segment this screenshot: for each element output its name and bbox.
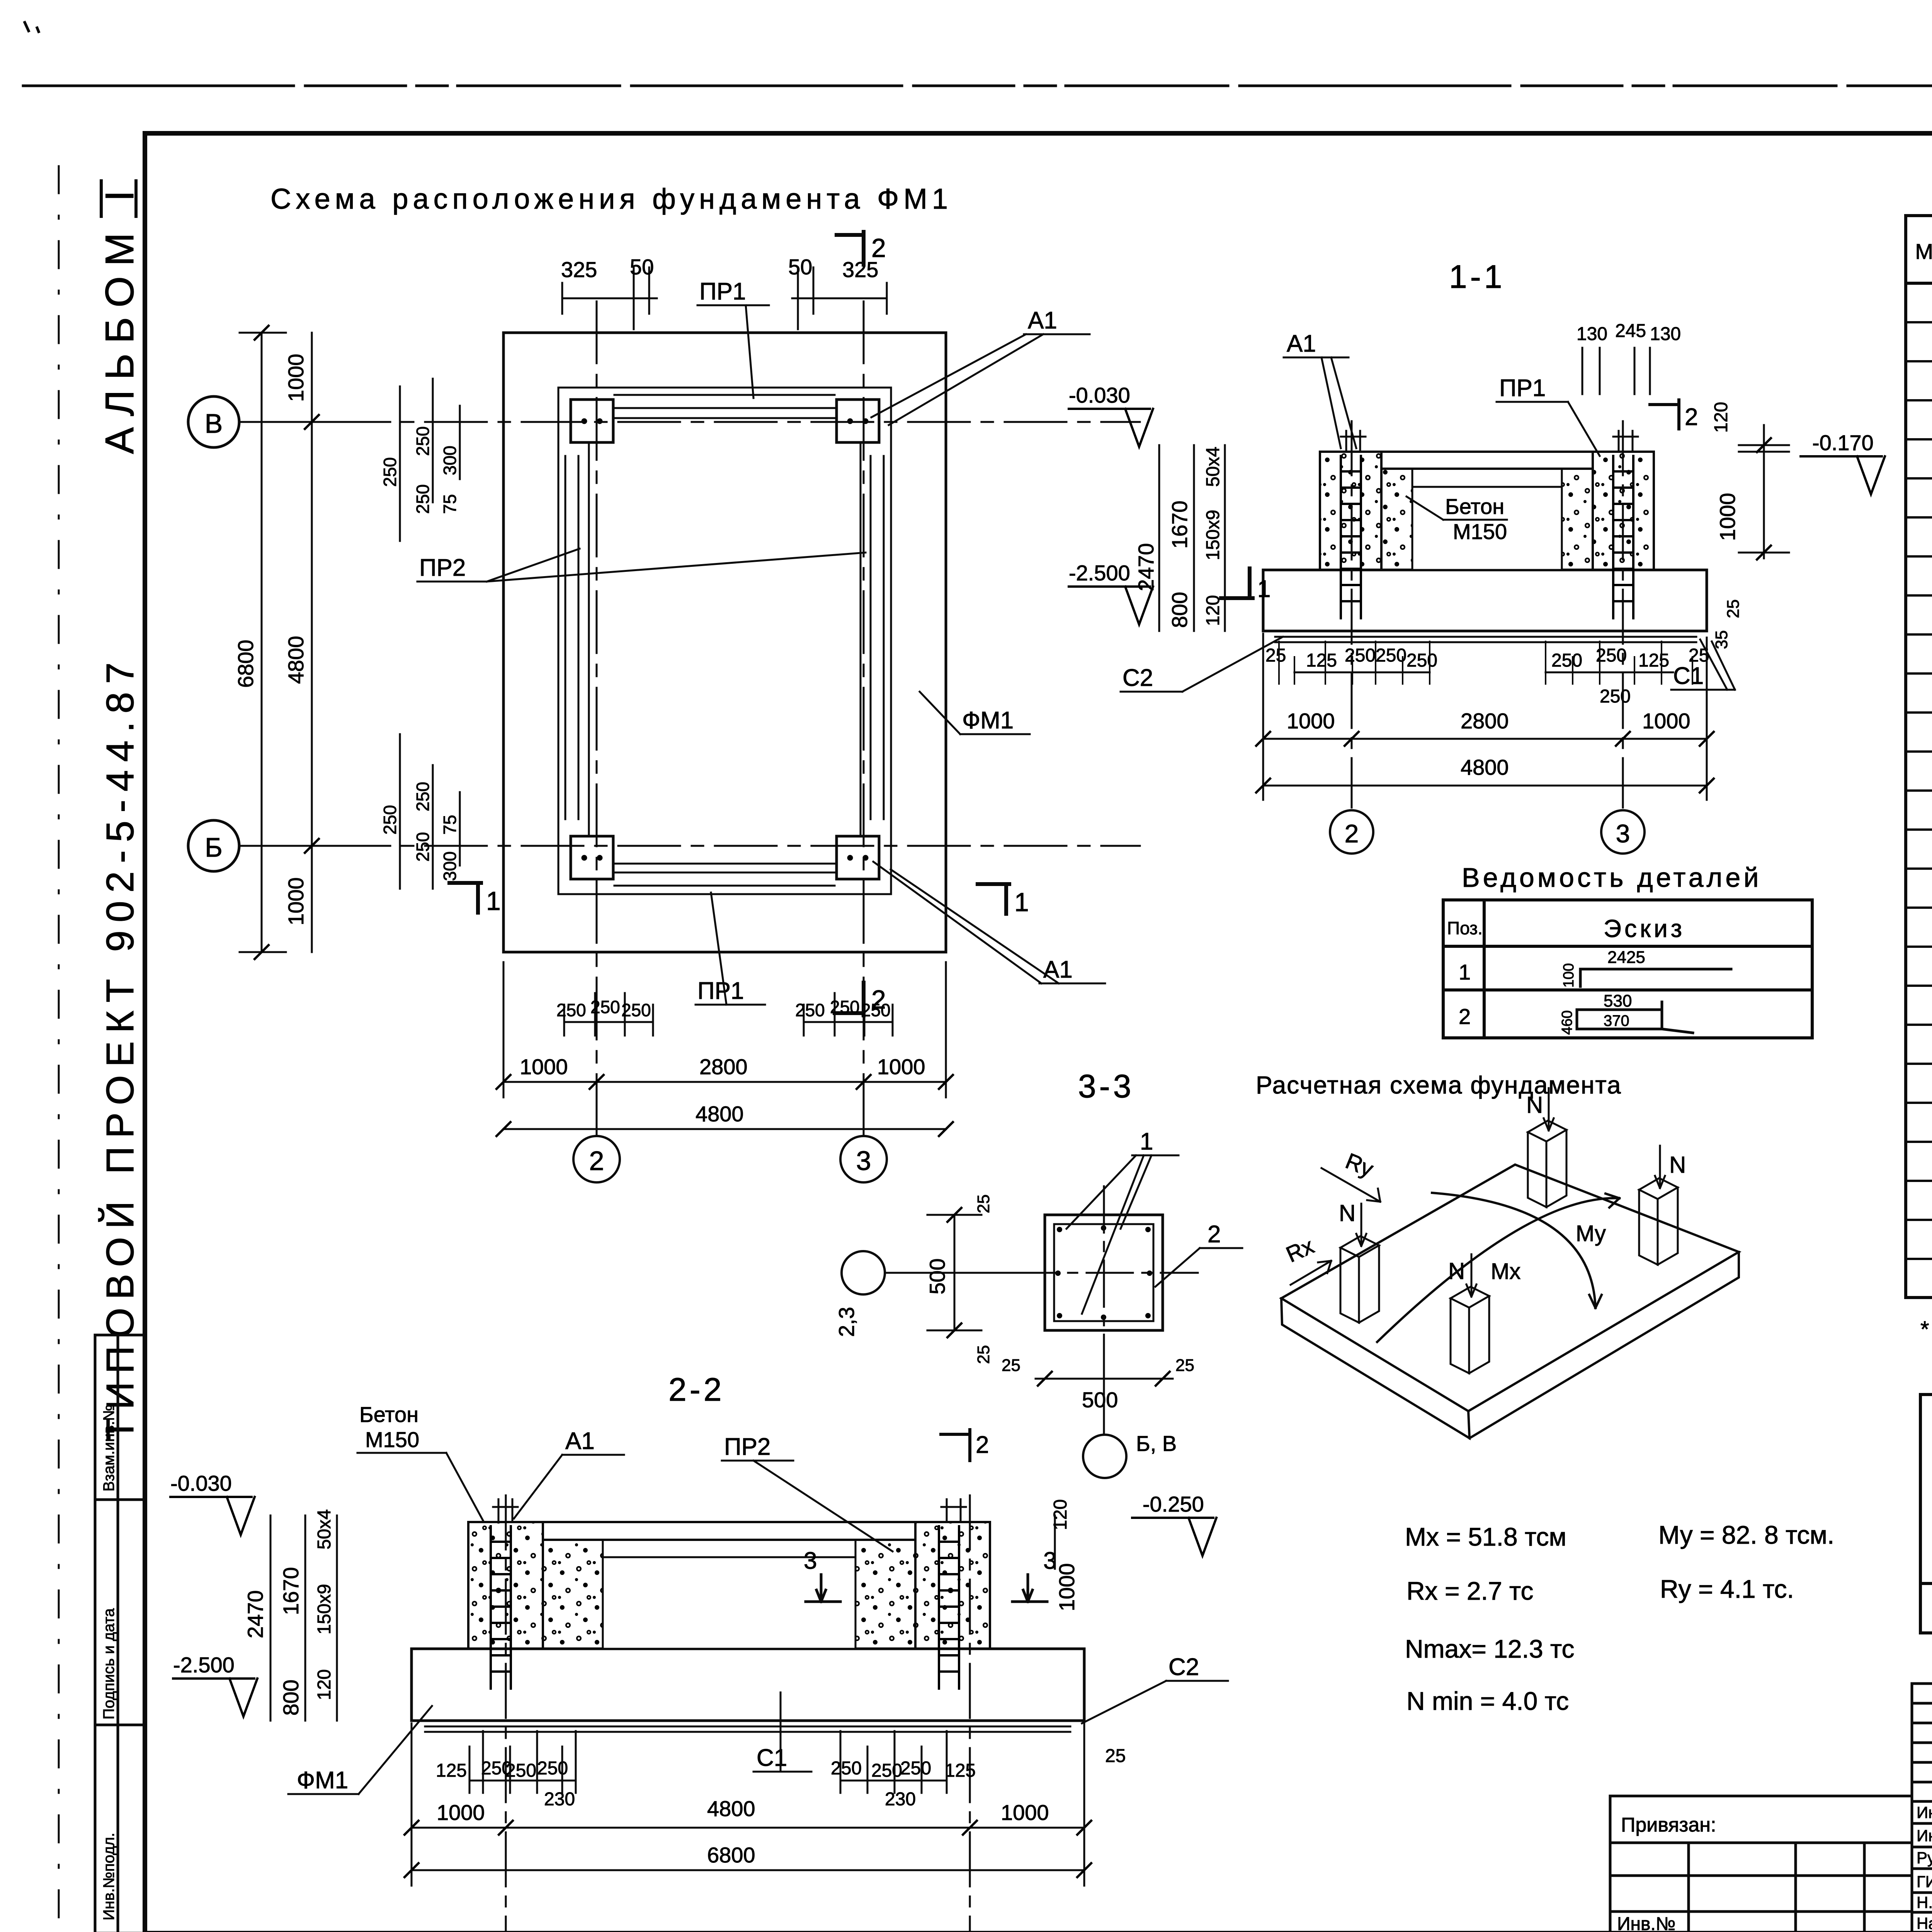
svg-text:Rу = 4.1 тс.: Rу = 4.1 тс. [1660, 1575, 1794, 1603]
svg-text:1000: 1000 [520, 1054, 568, 1079]
sec2 left column [468, 1522, 543, 1649]
svg-text:300: 300 [440, 851, 460, 881]
plan axis circle В [188, 396, 239, 447]
svg-text:3: 3 [856, 1146, 871, 1176]
svg-text:50: 50 [788, 255, 812, 279]
svg-text:Подпись и дата: Подпись и дата [100, 1608, 117, 1719]
svg-text:N: N [1339, 1200, 1355, 1226]
3d column D [1639, 1178, 1678, 1265]
svg-text:250: 250 [1596, 645, 1627, 666]
svg-text:75: 75 [440, 815, 460, 835]
sec3 axis circle Б,В [1083, 1435, 1126, 1478]
svg-text:2,3: 2,3 [834, 1307, 859, 1337]
svg-text:250: 250 [861, 1000, 891, 1020]
svg-text:800: 800 [279, 1680, 303, 1716]
svg-text:2: 2 [1207, 1221, 1221, 1248]
svg-text:Му = 82. 8 тсм.: Му = 82. 8 тсм. [1658, 1520, 1834, 1549]
sec1 marker 2 top [1650, 400, 1679, 429]
svg-text:4800: 4800 [696, 1102, 744, 1126]
svg-text:Му: Му [1576, 1221, 1606, 1246]
3d N arrows [1356, 1088, 1665, 1297]
svg-text:125: 125 [945, 1760, 976, 1781]
svg-text:500: 500 [925, 1259, 949, 1294]
svg-text:Инв.№подл.: Инв.№подл. [100, 1833, 117, 1920]
plan ring outer [558, 388, 891, 894]
svg-text:Ведомость деталей: Ведомость деталей [1462, 862, 1762, 893]
sec2 ladder right [939, 1526, 959, 1689]
sec2 mesh lines [425, 1726, 1070, 1732]
spec table grid [1906, 216, 1932, 1298]
sec2 right dims 120 1000 [1054, 1515, 1056, 1569]
svg-text:2800: 2800 [699, 1054, 748, 1079]
svg-text:250: 250 [621, 1000, 651, 1020]
plan corner column BR [837, 836, 879, 879]
svg-text:530: 530 [1604, 992, 1632, 1010]
svg-text:2470: 2470 [243, 1590, 267, 1638]
svg-text:2: 2 [1459, 1004, 1471, 1029]
svg-text:25: 25 [1105, 1746, 1126, 1766]
привязан block [1610, 1796, 1912, 1932]
svg-text:С2: С2 [1122, 665, 1153, 691]
svg-text:150х9: 150х9 [314, 1584, 335, 1634]
plan corner column TR [837, 400, 879, 442]
svg-text:1: 1 [1140, 1128, 1153, 1155]
svg-text:250: 250 [1551, 650, 1582, 671]
svg-text:ПР2: ПР2 [419, 554, 466, 581]
sec1 left dims [1159, 445, 1225, 631]
svg-text:245: 245 [1615, 321, 1646, 341]
svg-text:ПР1: ПР1 [1499, 375, 1546, 401]
svg-text:2470: 2470 [1134, 543, 1158, 591]
svg-text:-2.500: -2.500 [1069, 561, 1130, 585]
svg-text:3: 3 [1616, 819, 1630, 848]
svg-text:250: 250 [413, 484, 433, 514]
plan left dim 6800 [240, 333, 286, 952]
svg-text:120: 120 [1050, 1499, 1071, 1530]
svg-text:2425: 2425 [1607, 948, 1645, 967]
svg-text:Б: Б [205, 832, 223, 862]
svg-text:2: 2 [871, 233, 886, 263]
plan top dim 50 325 right [792, 267, 887, 329]
svg-text:Схема расположения фундамента: Схема расположения фундамента ФМ1 [270, 183, 952, 215]
plan axis vertical line 3 [863, 301, 865, 1136]
svg-text:4800: 4800 [284, 636, 308, 684]
svg-text:1000: 1000 [284, 354, 308, 402]
plan corner column TL [571, 400, 613, 442]
svg-text:250: 250 [380, 805, 400, 835]
svg-text:3-3: 3-3 [1078, 1068, 1134, 1104]
3d plate [1281, 1165, 1739, 1411]
svg-text:460: 460 [1559, 1010, 1575, 1035]
vedomost sketch row1 [1580, 969, 1731, 986]
sec2 dim 1000 4800 1000 [412, 1827, 1084, 1829]
svg-text:ТИПОВОЙ ПРОЕКТ 902-5-44.87: ТИПОВОЙ ПРОЕКТ 902-5-44.87 [98, 654, 142, 1441]
svg-text:Эскиз: Эскиз [1604, 915, 1685, 942]
svg-text:Бетон: Бетон [359, 1402, 418, 1427]
plan axis circle 3 [840, 1136, 887, 1182]
3d moment arc B [1432, 1193, 1602, 1308]
svg-text:ГИПконс: ГИПконс [1917, 1872, 1932, 1891]
svg-text:Привязан:: Привязан: [1621, 1814, 1716, 1836]
sec2 top beam [468, 1522, 990, 1540]
svg-text:Инв.№: Инв.№ [1617, 1914, 1675, 1932]
sec2 ladder left [491, 1526, 511, 1689]
plan slab ФМ1 outline [503, 333, 946, 952]
sec1 dim 4800 [1263, 634, 1707, 800]
sec1 dim 1000 2800 1000 [1263, 738, 1707, 740]
svg-text:230: 230 [544, 1789, 575, 1810]
svg-text:300: 300 [440, 446, 460, 475]
sec1 axis line 2 [1351, 421, 1353, 808]
svg-text:500: 500 [1082, 1388, 1118, 1412]
3d Rx arrow [1291, 1261, 1331, 1285]
plan bottom small dims right [804, 993, 893, 1036]
sec2 markers 3 [806, 1575, 840, 1602]
svg-text:250: 250 [1600, 686, 1631, 707]
svg-text:325: 325 [561, 257, 597, 282]
svg-text:ПР1: ПР1 [697, 978, 744, 1004]
sec1 axis line 3 [1622, 421, 1624, 808]
sec1 ladder left [1341, 456, 1361, 618]
sec1 cavity [1381, 469, 1412, 570]
svg-text:2-2: 2-2 [668, 1371, 724, 1408]
sec3 axis circle 2,3 [842, 1251, 885, 1294]
left margin small boxes [95, 1335, 145, 1932]
svg-text:Nmax= 12.3 тс: Nmax= 12.3 тс [1405, 1634, 1575, 1663]
sec1 marker 1 bottom-left [1221, 568, 1253, 598]
svg-text:Инжен.: Инжен. [1917, 1827, 1932, 1845]
svg-text:Расчетная схема фундамента: Расчетная схема фундамента [1256, 1071, 1622, 1099]
plan axis vertical line 2 [596, 301, 598, 1136]
signatures table [1912, 1684, 1932, 1932]
plan section marker 1 right [978, 884, 1009, 914]
left trim dash-dot line [58, 166, 60, 1932]
svg-text:6800: 6800 [233, 639, 258, 688]
svg-text:ПР1: ПР1 [699, 278, 746, 305]
spec rows [1931, 291, 1932, 1235]
svg-text:150х9: 150х9 [1203, 510, 1223, 560]
sec1 mesh C2 lines [1275, 637, 1696, 642]
svg-text:С1: С1 [1673, 663, 1704, 689]
svg-text:1: 1 [1459, 960, 1471, 984]
sec1 right column [1593, 452, 1654, 570]
sec2 axis lines [506, 1495, 970, 1932]
svg-text:230: 230 [885, 1789, 916, 1810]
svg-text:Б, В: Б, В [1136, 1431, 1177, 1456]
plan section marker 1 left [449, 883, 481, 913]
svg-text:МАРКА: МАРКА [1915, 239, 1932, 264]
svg-text:Rх = 2.7 тс: Rх = 2.7 тс [1406, 1577, 1533, 1605]
svg-text:М150: М150 [1453, 519, 1507, 544]
svg-text:125: 125 [1638, 650, 1669, 671]
album I serifs [101, 181, 136, 216]
svg-text:2: 2 [589, 1146, 604, 1176]
plan top dim 325 50 left [562, 267, 657, 329]
svg-text:N: N [1526, 1092, 1543, 1118]
3d moment arc A [1377, 1194, 1619, 1342]
svg-text:1000: 1000 [1642, 709, 1690, 733]
svg-text:Мх: Мх [1491, 1259, 1520, 1284]
sec2 left dims [270, 1515, 337, 1721]
svg-text:25: 25 [1724, 599, 1743, 618]
svg-text:А1: А1 [1287, 330, 1316, 357]
plan dim 1000 2800 1000 [503, 962, 946, 1097]
sec3 rebar dots [1055, 1225, 1152, 1320]
svg-text:N min = 4.0 тс: N min = 4.0 тс [1406, 1687, 1569, 1715]
svg-text:1670: 1670 [1167, 500, 1192, 549]
svg-text:1: 1 [1014, 888, 1029, 917]
sec2 right column [915, 1522, 990, 1649]
svg-text:250: 250 [900, 1758, 931, 1779]
svg-text:125: 125 [436, 1760, 467, 1781]
plan corner column BL [571, 836, 613, 879]
sec1 right dims 120 1000 [1739, 425, 1789, 558]
svg-text:250: 250 [556, 1000, 586, 1020]
svg-text:250: 250 [413, 426, 433, 456]
svg-text:АЛЬБОМ I: АЛЬБОМ I [97, 180, 142, 454]
svg-text:250: 250 [590, 997, 620, 1017]
sec2 dim 6800 [412, 1723, 1084, 1886]
svg-text:1000: 1000 [284, 877, 308, 925]
svg-text:250: 250 [380, 457, 400, 487]
3d column B [1528, 1121, 1566, 1207]
vedomost sketch row2 [1577, 1002, 1693, 1033]
svg-text:Поз.: Поз. [1447, 918, 1483, 938]
svg-text:3: 3 [804, 1548, 817, 1574]
svg-text:250: 250 [871, 1760, 902, 1781]
svg-text:ФМ1: ФМ1 [297, 1767, 348, 1794]
plan left dim 4800/1000 [294, 333, 332, 952]
svg-text:4800: 4800 [707, 1796, 755, 1821]
svg-text:6800: 6800 [707, 1843, 755, 1867]
svg-text:2: 2 [1685, 404, 1698, 430]
svg-text:Взам.инв.№: Взам.инв.№ [100, 1404, 117, 1492]
plan bottom small dims left [564, 993, 653, 1036]
svg-text:1: 1 [1257, 576, 1270, 602]
sec1 left column [1320, 452, 1381, 570]
svg-text:1000: 1000 [1715, 493, 1740, 541]
sec1 axis circle 3 [1601, 810, 1645, 854]
svg-text:25: 25 [974, 1345, 993, 1364]
svg-text:800: 800 [1167, 592, 1192, 628]
sec1 bolt tops [1341, 431, 1638, 452]
svg-text:1670: 1670 [279, 1567, 303, 1615]
plan section marker 2 bottom [835, 983, 864, 1015]
svg-text:1000: 1000 [1054, 1563, 1079, 1611]
svg-text:А1: А1 [1043, 956, 1073, 983]
sec2 cavity [543, 1540, 603, 1649]
svg-text:50х4: 50х4 [314, 1509, 335, 1549]
sec3 centerlines [1012, 1186, 1198, 1360]
plan axis horizontal line В [232, 421, 1140, 423]
svg-text:Инжен.: Инжен. [1917, 1803, 1932, 1821]
svg-text:130: 130 [1577, 324, 1607, 344]
svg-text:Бетон: Бетон [1445, 494, 1504, 519]
svg-text:2: 2 [1345, 819, 1359, 848]
svg-text:250: 250 [831, 1758, 862, 1779]
svg-text:25: 25 [1002, 1356, 1020, 1375]
sec2 bolt tops [493, 1499, 966, 1522]
svg-text:Нач.отд: Нач.отд [1917, 1914, 1932, 1932]
svg-text:25: 25 [1175, 1356, 1194, 1375]
svg-text:1: 1 [486, 886, 501, 916]
svg-text:В: В [205, 408, 223, 439]
plan left beam ПР2 double lines [565, 456, 578, 819]
plan ring inner [589, 418, 861, 864]
3d N labels [1339, 1092, 1686, 1284]
svg-text:35: 35 [1712, 630, 1731, 649]
plan dim 4800 [503, 1128, 946, 1130]
svg-text:-2.500: -2.500 [173, 1653, 235, 1677]
sec2 marker 2 top [941, 1430, 970, 1461]
svg-text:250: 250 [413, 782, 433, 811]
scan speck top-left [25, 22, 39, 32]
svg-text:130: 130 [1650, 324, 1681, 344]
plan axis circle Б [188, 820, 239, 871]
svg-text:ПР2: ПР2 [724, 1434, 770, 1460]
svg-text:Н.контр: Н.контр [1917, 1893, 1932, 1912]
svg-text:100: 100 [1561, 963, 1577, 988]
svg-text:А1: А1 [1028, 307, 1057, 334]
svg-text:ФМ1: ФМ1 [962, 707, 1014, 734]
plan small dims top-left cluster [400, 379, 460, 541]
svg-text:2: 2 [976, 1432, 989, 1458]
top trim dashed line [23, 85, 1932, 87]
svg-text:1000: 1000 [437, 1800, 485, 1825]
svg-text:125: 125 [1306, 650, 1337, 671]
svg-text:1000: 1000 [1001, 1800, 1049, 1825]
svg-text:-0.030: -0.030 [1069, 383, 1130, 407]
sec3 inner square [1054, 1224, 1153, 1321]
sec1 plate [1263, 570, 1707, 631]
sec3 outer square [1045, 1215, 1163, 1330]
svg-text:-0.170: -0.170 [1812, 430, 1874, 455]
svg-text:250: 250 [537, 1758, 568, 1779]
svg-text:2800: 2800 [1461, 709, 1509, 733]
plan right beam ПР2 double lines [871, 456, 884, 819]
sec1 ladder right [1613, 456, 1633, 618]
svg-text:120: 120 [1711, 402, 1731, 433]
svg-text:* Позиции 1,2 смотри ведомо: * Позиции 1,2 смотри ведомость деталей [1920, 1317, 1932, 1342]
svg-text:75: 75 [440, 494, 460, 514]
svg-text:250: 250 [795, 1000, 825, 1020]
svg-text:250: 250 [830, 997, 860, 1017]
svg-text:1-1: 1-1 [1449, 259, 1505, 295]
plan axis circle 2 [573, 1136, 620, 1182]
svg-text:50: 50 [630, 255, 654, 279]
svg-text:25: 25 [974, 1194, 993, 1213]
svg-text:С2: С2 [1168, 1654, 1199, 1680]
plan small dims bottom-left cluster [400, 734, 460, 889]
sec1 axis circle 2 [1330, 810, 1373, 854]
sec1 top beam [1320, 452, 1654, 469]
svg-text:250: 250 [1406, 650, 1437, 671]
3d column C [1451, 1287, 1489, 1373]
svg-text:120: 120 [314, 1669, 335, 1700]
svg-text:250: 250 [413, 832, 433, 862]
svg-text:Мх = 51.8 тсм: Мх = 51.8 тсм [1405, 1522, 1566, 1551]
svg-text:50х4: 50х4 [1203, 447, 1223, 487]
sec2 plate [412, 1649, 1084, 1721]
svg-text:25: 25 [1265, 645, 1286, 666]
svg-text:1000: 1000 [1287, 709, 1335, 733]
svg-text:370: 370 [1604, 1012, 1629, 1029]
svg-text:С1: С1 [757, 1745, 787, 1771]
svg-text:-0.250: -0.250 [1143, 1492, 1204, 1516]
svg-text:-0.030: -0.030 [170, 1471, 232, 1495]
svg-text:4800: 4800 [1461, 755, 1509, 779]
svg-text:М150: М150 [365, 1427, 419, 1452]
plan axis horizontal line Б [232, 845, 1140, 847]
svg-text:N: N [1669, 1152, 1686, 1178]
plan section marker 2 top [837, 232, 864, 265]
svg-text:А1: А1 [565, 1428, 595, 1454]
vedomost table [1443, 900, 1812, 1038]
3d Ry arrow [1321, 1168, 1380, 1202]
3d column A [1340, 1236, 1379, 1323]
plan top beam ПР1 double lines [614, 395, 835, 408]
svg-text:1000: 1000 [877, 1054, 925, 1079]
svg-text:Рук.гр.: Рук.гр. [1917, 1849, 1932, 1867]
plan bottom beam ПР1 double lines [614, 872, 835, 886]
